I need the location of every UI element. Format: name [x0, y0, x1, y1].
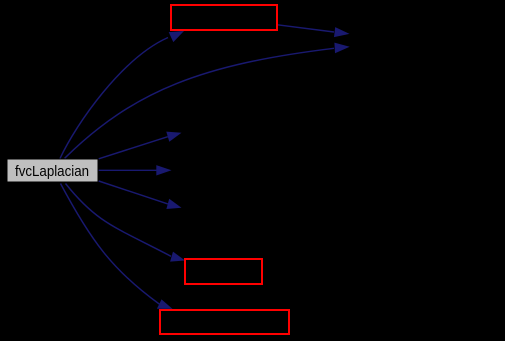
node small red box (truncated dependency): [185, 259, 262, 284]
arrowhead edge2: [334, 43, 349, 54]
arrowhead edge3: [166, 132, 181, 142]
arrowhead edge7: [157, 299, 173, 309]
arrowhead edge8: [334, 27, 350, 37]
arrowhead edge6: [170, 252, 185, 262]
arrowhead edge5: [166, 199, 181, 209]
node top red box (truncated dependency): [171, 5, 277, 30]
wire edge2 fvcLaplacian to far right node (long curve): [65, 48, 334, 158]
wire edge7 fvcLaplacian to bottom red box: [61, 184, 160, 305]
node bottom red box (truncated dependency): [160, 310, 289, 334]
wire edge1 fvcLaplacian to top red box: [60, 38, 168, 159]
node fvcLaplacian (root node, grey filled): [7, 159, 98, 182]
wire edge3 fvcLaplacian to middle node 1: [99, 137, 168, 159]
arrowhead edge4: [156, 165, 171, 175]
wire edge4 fvcLaplacian to middle node 2: [99, 169, 157, 171]
svg-text:fvcLaplacian: fvcLaplacian: [15, 164, 89, 180]
wire edge6 fvcLaplacian to small red box: [66, 184, 172, 257]
wire edge5 fvcLaplacian to middle node 3: [99, 181, 168, 204]
arrowhead edge1: [169, 31, 184, 42]
wire edge8 top red box to far right node: [278, 25, 335, 32]
